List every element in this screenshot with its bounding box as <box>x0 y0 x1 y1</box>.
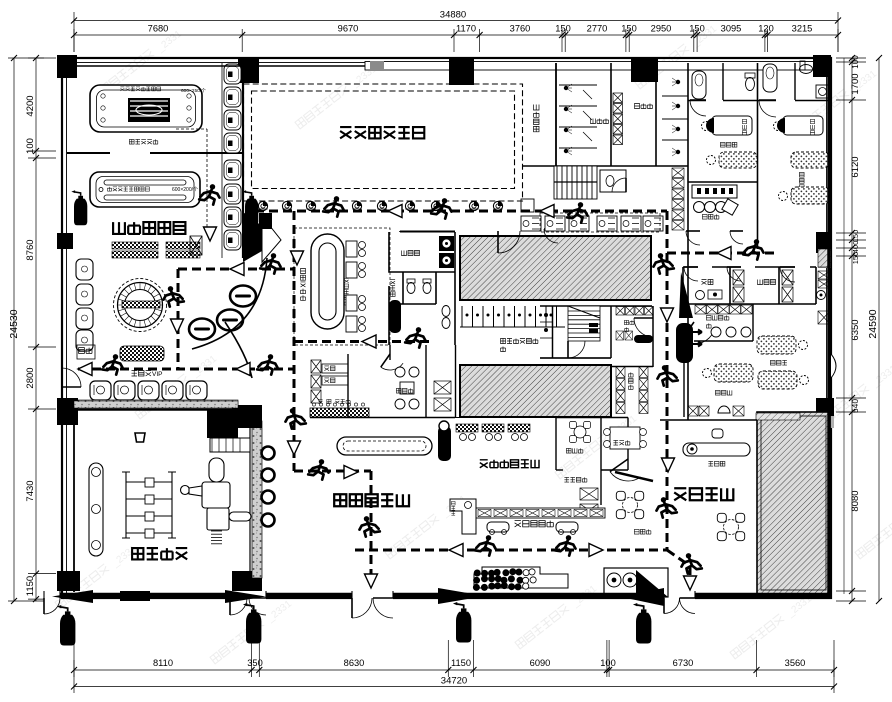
svg-text:2800: 2800 <box>25 367 36 388</box>
corner columns of play room <box>232 405 262 428</box>
svg-text:34880: 34880 <box>440 10 466 21</box>
wall above postpartum hall <box>660 419 757 421</box>
slide tower top right <box>207 410 238 438</box>
svg-text:540: 540 <box>850 399 860 413</box>
upper dashed thin zone <box>206 129 208 227</box>
svg-text:150: 150 <box>851 230 860 243</box>
stairs top <box>554 166 597 199</box>
bathtub 2 <box>763 64 777 92</box>
pebble path <box>474 567 568 588</box>
right wall door bedroom4 <box>831 354 834 378</box>
entrance black wedges <box>52 590 93 603</box>
left wall door <box>62 368 81 387</box>
svg-text:6120: 6120 <box>850 156 861 177</box>
bath strip walls <box>688 63 831 101</box>
fire extinguishers <box>57 605 75 645</box>
toilet 1 <box>746 78 755 91</box>
svg-text:150: 150 <box>621 24 637 34</box>
stadium capsule track <box>311 234 344 329</box>
postpartum hall label <box>674 488 733 500</box>
svg-text:150: 150 <box>689 24 705 34</box>
changing area bottom wall <box>540 357 611 359</box>
VIP sofa <box>120 346 164 361</box>
svg-text:3560: 3560 <box>785 658 806 668</box>
operator label <box>390 279 395 296</box>
svg-text:7430: 7430 <box>25 480 36 501</box>
svg-text:1150: 1150 <box>451 658 471 668</box>
pool parent-child deep pool dashed boundary <box>244 84 523 201</box>
storage cell x-boxes <box>434 381 451 394</box>
svg-text:1150: 1150 <box>25 576 36 596</box>
svg-text:9670: 9670 <box>338 24 359 34</box>
hatched block right tall <box>757 412 830 594</box>
pool area left wall <box>242 63 244 258</box>
washing machines <box>439 236 454 251</box>
top wall densify <box>62 65 365 67</box>
equipment room bars <box>589 323 598 327</box>
toilet cells <box>407 283 415 294</box>
bedroom3 bed with head <box>783 116 823 135</box>
spa pool B infant pool <box>90 172 200 207</box>
water gun tower <box>181 458 252 530</box>
door pool to corridor <box>498 231 520 253</box>
evacuation arrows <box>388 205 402 218</box>
door to postpartum hall <box>610 472 641 481</box>
waiting room table <box>610 427 640 449</box>
svg-text:350: 350 <box>247 658 263 668</box>
dimension line left inner <box>28 58 56 601</box>
svg-text:600×250/个: 600×250/个 <box>181 88 206 94</box>
water play park walls <box>73 409 75 592</box>
wall right of treatment rooms extension <box>455 345 457 417</box>
child massage hall label <box>480 460 539 468</box>
mid-right service block walls <box>540 306 653 367</box>
slide wedge <box>243 212 281 262</box>
tub column <box>224 64 241 84</box>
bedroom1 <box>683 341 685 417</box>
small wc cells left of stairs <box>544 313 548 317</box>
fire hose cabinet lobby <box>438 426 451 461</box>
hatched block center upper <box>460 236 651 300</box>
massage bench black <box>634 335 653 343</box>
dimension line bottom inner <box>74 640 834 677</box>
bedroom3 beds dotted <box>791 152 829 168</box>
disinfection room lockers <box>616 307 625 316</box>
svg-text:7680: 7680 <box>148 24 169 34</box>
play capsule <box>89 463 103 556</box>
staff changing room <box>694 304 753 341</box>
bottom door leaves <box>352 598 372 618</box>
svg-text:1700: 1700 <box>850 73 861 94</box>
thick right wall <box>827 58 831 598</box>
observation corridor wall <box>555 63 557 166</box>
sprinkler circles row <box>258 201 267 210</box>
hatched band top of play room <box>74 401 238 408</box>
swim hall reception capsule desk <box>337 437 432 455</box>
hatched block center lower <box>460 365 611 417</box>
svg-text:8760: 8760 <box>25 239 36 260</box>
water play park label <box>132 548 187 559</box>
hair wash room <box>604 568 668 597</box>
bar counter <box>310 408 369 417</box>
water heater black <box>389 300 401 333</box>
queue curve arc <box>192 258 267 349</box>
svg-text:2770: 2770 <box>587 24 608 34</box>
thick bottom wall <box>0 0 3 3</box>
sink right <box>816 85 829 98</box>
svg-text:3760: 3760 <box>510 24 531 34</box>
svg-text:100: 100 <box>851 55 860 69</box>
svg-text:3095: 3095 <box>721 24 742 34</box>
wall between pool rooms <box>67 152 110 154</box>
svg-text:3215: 3215 <box>792 24 813 34</box>
gym equipment row <box>521 216 541 231</box>
corner counter left <box>450 499 476 534</box>
top lintel band <box>365 62 831 71</box>
fire cabinet with hose <box>679 272 693 318</box>
evacuation route main horizontal <box>78 211 779 578</box>
tool room walls <box>389 231 455 345</box>
treatment room <box>310 345 455 418</box>
svg-text:6730: 6730 <box>673 658 694 668</box>
small stool <box>135 433 145 442</box>
child massage hall desks <box>456 424 478 432</box>
locker column with X <box>613 93 623 103</box>
outer wall <box>62 58 831 598</box>
bedroom4 <box>757 336 796 354</box>
bottom wall with door gaps <box>0 0 2 2</box>
svg-text:8080: 8080 <box>850 490 861 511</box>
dimension line bottom outer 34720 <box>74 686 834 688</box>
svg-text:1170: 1170 <box>456 24 476 34</box>
corridor wall below gym <box>688 236 831 238</box>
dimension line left outer 24530 <box>13 58 15 601</box>
svg-text:600×200/个: 600×200/个 <box>172 187 198 193</box>
hatched table <box>190 236 202 255</box>
hydrotherapy VIP label <box>132 371 152 377</box>
stairs mid <box>568 306 600 341</box>
treatment chairs <box>395 367 405 377</box>
exam rooms center <box>556 418 628 506</box>
watermark texts <box>100 27 184 97</box>
pool label <box>340 127 424 138</box>
right shower stalls <box>662 96 688 140</box>
svg-text:100: 100 <box>600 658 616 668</box>
water play changing label <box>501 339 538 344</box>
svg-text:4200: 4200 <box>25 95 36 116</box>
svg-text:8630: 8630 <box>344 658 365 668</box>
exam room tables <box>574 426 586 438</box>
small wc near stairs <box>600 170 626 192</box>
svg-text:6090: 6090 <box>530 658 551 668</box>
bathtub 1 <box>692 71 706 99</box>
dimension line top outer 34880 <box>74 12 838 52</box>
shower stalls left of lockers <box>559 85 597 148</box>
play room top wall <box>62 408 262 410</box>
climbing frame <box>122 472 176 538</box>
black box near pool extinguisher <box>259 213 272 229</box>
swim hall lobby label <box>334 494 409 506</box>
barber counter row <box>476 508 605 518</box>
sofa area shelf <box>311 360 321 373</box>
spa pool A <box>90 85 202 132</box>
svg-text:34720: 34720 <box>441 676 467 687</box>
runner icons <box>199 184 219 205</box>
shower block walls <box>522 63 758 420</box>
sink room <box>692 185 737 198</box>
left wall chairs <box>76 259 93 280</box>
locker strip left of sink room <box>672 168 684 178</box>
ramp wedge right room <box>636 570 668 597</box>
round spa pool <box>114 279 167 332</box>
rest area tables <box>623 498 638 513</box>
svg-text:2950: 2950 <box>651 24 672 34</box>
gray half columns <box>818 253 831 268</box>
lounge chairs row <box>90 381 111 400</box>
wall between bed2 and sink room <box>688 181 757 183</box>
svg-text:400: 400 <box>851 241 860 254</box>
baby tub ovals on curve <box>189 319 215 340</box>
right outer extension line <box>843 58 845 594</box>
gray strip above right block <box>756 413 800 420</box>
bedroom2 bed with head <box>712 116 752 135</box>
svg-text:24590: 24590 <box>867 309 879 338</box>
checkered sofas <box>112 242 158 249</box>
dimension line top inner <box>74 29 838 52</box>
bedroom2 massage bed <box>719 152 757 168</box>
svg-text:VIP: VIP <box>152 371 162 378</box>
cashier counter <box>683 443 750 456</box>
svg-text:150: 150 <box>555 24 571 34</box>
svg-text:100: 100 <box>25 138 36 154</box>
rest waiting label <box>301 269 306 301</box>
observation platform label <box>534 105 540 132</box>
structural columns <box>57 55 77 78</box>
svg-text:8110: 8110 <box>153 658 173 668</box>
wall below pool <box>400 231 455 233</box>
changing stalls row <box>460 306 565 327</box>
svg-text:150: 150 <box>851 252 860 265</box>
wall valves <box>262 447 275 460</box>
dimension line right inner <box>836 58 866 601</box>
right wall fixtures strip <box>818 271 830 279</box>
thin dashed room boundary <box>294 228 390 345</box>
dimension line right outer 24590 <box>878 58 880 601</box>
wc and tool room block walls <box>683 267 816 304</box>
speckle base strip <box>78 400 238 408</box>
toilet 2 <box>800 65 813 74</box>
kid car chairs <box>487 522 509 532</box>
regular natatorium label <box>113 222 185 234</box>
evacuation dashed mid horizontal <box>294 340 430 343</box>
storage closet <box>616 367 625 378</box>
svg-text:24530: 24530 <box>8 309 20 338</box>
svg-text:6350: 6350 <box>850 319 861 340</box>
svg-text:120: 120 <box>758 24 774 34</box>
desk chair pairs <box>346 241 357 257</box>
